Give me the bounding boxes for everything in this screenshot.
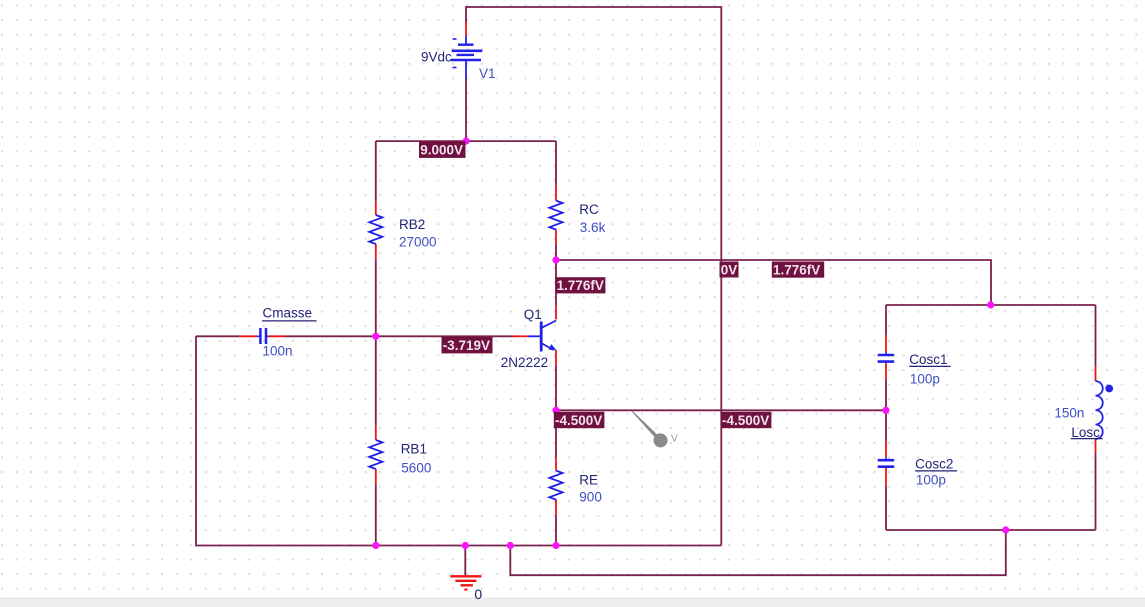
svg-text:27000: 27000 [399, 235, 437, 250]
svg-text:RB2: RB2 [399, 217, 425, 232]
svg-text:900: 900 [579, 489, 602, 504]
svg-text:RC: RC [579, 202, 599, 217]
svg-text:100n: 100n [263, 344, 293, 359]
svg-text:2N2222: 2N2222 [501, 355, 548, 370]
svg-text:9.000V: 9.000V [420, 142, 463, 157]
svg-text:3.6k: 3.6k [580, 220, 606, 235]
svg-text:100p: 100p [916, 473, 946, 488]
svg-text:5600: 5600 [401, 461, 431, 476]
svg-text:0: 0 [474, 586, 482, 602]
svg-text:-4.500V: -4.500V [555, 413, 602, 428]
svg-text:RB1: RB1 [401, 442, 427, 457]
svg-text:-4.500V: -4.500V [722, 413, 769, 428]
svg-text:Losc: Losc [1071, 425, 1100, 440]
svg-text:-3.719V: -3.719V [443, 338, 490, 353]
svg-text:Q1: Q1 [524, 307, 542, 322]
svg-text:V1: V1 [479, 66, 496, 81]
svg-text:1.776fV: 1.776fV [773, 263, 820, 278]
svg-text:1.776fV: 1.776fV [557, 278, 604, 293]
svg-text:Cmasse: Cmasse [263, 306, 313, 321]
svg-text:Cosc2: Cosc2 [915, 457, 953, 472]
svg-text:9Vdc: 9Vdc [421, 50, 452, 65]
svg-text:100p: 100p [910, 372, 940, 387]
svg-text:RE: RE [579, 473, 598, 488]
svg-text:V: V [671, 432, 678, 444]
svg-text:0V: 0V [721, 263, 738, 278]
svg-text:150n: 150n [1054, 406, 1084, 421]
svg-text:Cosc1: Cosc1 [909, 352, 947, 367]
